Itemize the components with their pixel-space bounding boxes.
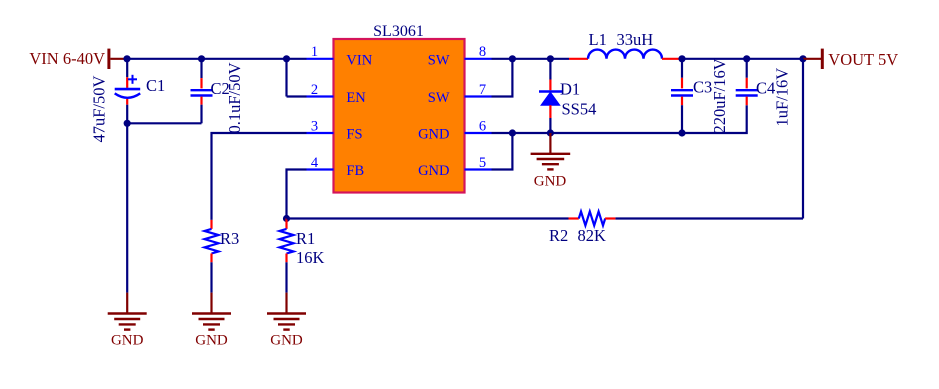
svg-text:220uF/16V: 220uF/16V: [710, 58, 729, 133]
svg-text:GND: GND: [418, 127, 449, 143]
node C4 top: [743, 55, 750, 62]
wire SW7 branch: [492, 59, 513, 97]
node C3 bottom: [678, 129, 685, 136]
node pin8 junction: [509, 55, 516, 62]
wire GND5 branch: [492, 133, 513, 170]
node at C2 top: [198, 55, 205, 62]
node at C1 top: [123, 55, 130, 62]
node pin6 junction: [509, 129, 516, 136]
svg-text:VOUT 5V: VOUT 5V: [828, 50, 898, 69]
svg-text:3: 3: [311, 118, 318, 134]
svg-text:5: 5: [479, 155, 486, 171]
wire VOUT feedback vertical: [802, 59, 804, 219]
svg-text:SW: SW: [428, 52, 450, 68]
ground GND3: [267, 293, 306, 349]
svg-text:FS: FS: [346, 127, 362, 143]
port VOUT: [803, 49, 898, 69]
capacitor C3: [671, 59, 712, 133]
ground GND1: [108, 293, 147, 349]
node VOUT branch: [799, 55, 806, 62]
capacitor C4: [736, 59, 776, 105]
op-amp U1 SL3061 body: [334, 39, 465, 193]
inductor L1: [569, 30, 680, 59]
svg-text:EN: EN: [346, 90, 366, 106]
svg-text:0.1uF/50V: 0.1uF/50V: [225, 62, 244, 133]
svg-text:R3: R3: [220, 229, 239, 248]
svg-text:GND: GND: [195, 333, 228, 349]
svg-text:GND: GND: [111, 333, 144, 349]
svg-text:1uF/16V: 1uF/16V: [772, 68, 791, 127]
pin 7 SW: [428, 82, 492, 106]
node at pin1/EN branch: [283, 55, 290, 62]
svg-text:SW: SW: [428, 90, 450, 106]
svg-text:VIN: VIN: [346, 52, 372, 68]
svg-text:16K: 16K: [296, 248, 325, 267]
svg-text:FB: FB: [346, 163, 364, 179]
wire R2 row left: [287, 217, 569, 219]
svg-text:GND: GND: [418, 163, 449, 179]
wire FS net: [212, 133, 307, 220]
node C3 top: [678, 55, 685, 62]
wire pin8 to SW node: [492, 58, 570, 60]
resistor R1: [280, 219, 325, 293]
svg-text:82K: 82K: [578, 226, 607, 245]
svg-text:6: 6: [479, 118, 486, 134]
pin 2 EN: [307, 82, 367, 106]
node at C1 bottom: [124, 120, 131, 127]
svg-text:7: 7: [479, 82, 486, 98]
svg-text:47uF/50V: 47uF/50V: [89, 75, 108, 142]
wire C3-C4 bottom rail: [682, 105, 747, 133]
svg-text:2: 2: [311, 82, 318, 98]
svg-text:33uH: 33uH: [617, 30, 654, 49]
wire EN branch vertical: [285, 59, 287, 97]
svg-text:SS54: SS54: [562, 99, 597, 118]
resistor R2: [549, 212, 615, 246]
wire C1 bottom to GND: [126, 123, 128, 292]
pin 3 FS: [307, 118, 363, 142]
svg-text:4: 4: [311, 155, 319, 171]
pin 6 GND: [418, 118, 491, 142]
svg-text:GND: GND: [270, 333, 303, 349]
svg-text:R1: R1: [296, 229, 315, 248]
capacitor C1: [115, 59, 166, 124]
svg-text:D1: D1: [560, 79, 580, 98]
pin 4 FB: [307, 155, 365, 179]
svg-text:L1: L1: [589, 30, 607, 49]
ground GND2: [192, 293, 231, 349]
wire top rail left: [127, 58, 307, 60]
svg-text:C1: C1: [146, 76, 165, 95]
node FB/R1/R2: [283, 215, 290, 222]
pin 8 SW: [428, 44, 492, 68]
wire EN branch horizontal: [287, 95, 307, 97]
wire R2 row right: [615, 217, 803, 219]
svg-text:VIN 6-40V: VIN 6-40V: [29, 49, 105, 68]
wire C1-C2 bottom rail: [127, 122, 201, 124]
svg-text:1: 1: [311, 44, 318, 60]
port VIN: [29, 49, 127, 69]
svg-text:R2: R2: [549, 226, 568, 245]
svg-text:8: 8: [479, 44, 486, 60]
pin 1 VIN: [307, 44, 373, 68]
svg-text:SL3061: SL3061: [373, 23, 424, 40]
node D1 top: [547, 55, 554, 62]
capacitor C2: [191, 59, 230, 124]
ground GND4 (under D1): [531, 133, 571, 189]
wire pin6 GND rail: [492, 132, 683, 134]
resistor R3: [205, 220, 240, 293]
wire FB net: [287, 170, 307, 219]
node D1 bottom: [547, 129, 554, 136]
wire L1 to VOUT rail: [680, 58, 803, 60]
svg-text:GND: GND: [534, 173, 567, 189]
diode D1: [539, 59, 596, 133]
pin 5 GND: [418, 155, 491, 179]
